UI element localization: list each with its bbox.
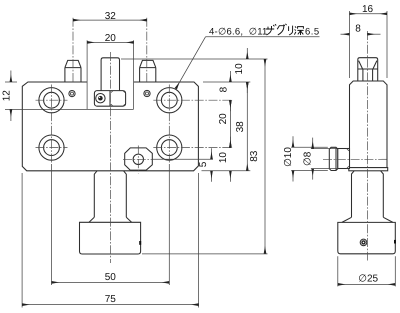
dim 20 line xyxy=(87,41,134,43)
svg-text:38: 38 xyxy=(235,121,246,133)
dim 8 top arrows xyxy=(341,33,350,35)
clamp nut body xyxy=(94,91,125,107)
svg-text:∅11: ∅11 xyxy=(249,27,268,38)
leader line with arrow xyxy=(176,37,206,89)
side top knob step line xyxy=(358,68,378,70)
side clamp knob head xyxy=(329,147,338,170)
hex bolt circle xyxy=(133,154,143,164)
carriage plate right edge xyxy=(133,40,135,109)
hole crosshair row1 left xyxy=(36,99,68,101)
counterbore hole bottom-left inner xyxy=(44,140,60,156)
dim 83 line xyxy=(264,59,266,254)
dia10 arrows xyxy=(292,136,294,147)
svg-text:50: 50 xyxy=(105,272,117,283)
dim 32 extension lines xyxy=(73,18,147,82)
side view mid cylinder xyxy=(352,171,384,218)
svg-text:6.5: 6.5 xyxy=(305,27,320,38)
svg-text:10: 10 xyxy=(218,152,229,164)
svg-text:8: 8 xyxy=(219,86,230,92)
hole crosshair row2 left xyxy=(36,147,68,149)
svg-text:4-∅6.6,: 4-∅6.6, xyxy=(209,27,243,38)
svg-text:5: 5 xyxy=(198,161,209,167)
dim 10 bottom arrows xyxy=(229,137,231,148)
note kanji FUKA (deep) xyxy=(294,27,303,36)
dim 32 line xyxy=(73,19,147,21)
counterbore hole top-right outer xyxy=(157,88,182,113)
ext line body bottom right xyxy=(202,170,251,172)
counterbore hole top-left inner xyxy=(44,92,60,108)
carriage plate left edge xyxy=(86,40,88,109)
side set screw edge mark xyxy=(394,240,396,244)
hex bolt crosshair horizontal extends to 5-dim xyxy=(123,158,152,160)
note kana ZA xyxy=(266,24,304,35)
svg-text:83: 83 xyxy=(249,150,260,162)
hole crosshair row2 right extends to dims xyxy=(153,147,233,149)
svg-text:16: 16 xyxy=(362,4,374,15)
clamp nut hex corner chamfers xyxy=(111,91,125,106)
pin hole left xyxy=(69,91,75,97)
side view upper block xyxy=(350,81,388,168)
dia8 extension lines xyxy=(311,149,337,169)
left top knob xyxy=(65,60,81,82)
ext line top edge right xyxy=(203,81,250,83)
dim 8 arrows (col A) xyxy=(229,71,231,82)
front body step edge line xyxy=(5,108,133,110)
dim 50 line xyxy=(52,281,170,283)
center post xyxy=(101,58,119,91)
counterbore hole top-right inner xyxy=(161,92,177,108)
side view top knob xyxy=(358,58,378,81)
side clamp neck chamfers xyxy=(347,149,349,169)
svg-text:8: 8 xyxy=(355,24,361,35)
dia10 extension lines xyxy=(291,147,328,170)
svg-text:∅25: ∅25 xyxy=(358,274,378,285)
counterbore hole bottom-left outer xyxy=(39,135,64,160)
side view vertical centerline xyxy=(366,31,368,261)
hole centerline right column xyxy=(168,85,170,165)
clamp nut divider xyxy=(109,91,111,107)
dia25 extension lines xyxy=(338,256,396,286)
counterbore hole bottom-right inner xyxy=(161,140,177,156)
side view base plate xyxy=(349,168,388,171)
dim 16 extension lines xyxy=(350,11,388,78)
svg-text:10: 10 xyxy=(234,63,245,75)
ext line post top right xyxy=(121,58,268,60)
counterbore hole bottom-right outer xyxy=(157,135,182,160)
side clamp knob axis centerline xyxy=(323,158,387,160)
front view body outline xyxy=(22,82,198,171)
leader note underline xyxy=(206,36,320,38)
dim 12 arrows xyxy=(10,71,12,83)
hole centerline left column xyxy=(51,85,53,165)
pin hole right xyxy=(144,90,150,96)
note kana GU xyxy=(277,24,286,35)
side view bottom cylinder xyxy=(338,222,396,253)
side set screw circle xyxy=(360,239,367,246)
shaft flare xyxy=(89,217,132,222)
side view flare xyxy=(342,217,393,222)
hex bolt crosshair vertical xyxy=(137,146,139,174)
dim 10 top arrows (col B) xyxy=(246,48,248,59)
counterbore hole top-left outer xyxy=(39,88,64,113)
dim 75 extension lines xyxy=(22,173,199,308)
svg-text:32: 32 xyxy=(105,11,117,22)
bottom cylinder front xyxy=(80,222,141,254)
clamp screw center dot xyxy=(98,96,103,101)
svg-text:20: 20 xyxy=(105,33,117,44)
side top knob taper lines xyxy=(359,61,377,81)
svg-text:12: 12 xyxy=(1,90,12,102)
dim 16 line xyxy=(350,13,388,15)
dim 12 extension tick xyxy=(5,81,17,83)
dim 5 arrows xyxy=(211,148,213,159)
set screw mark on cylinder edge xyxy=(139,241,141,245)
note kana RI xyxy=(289,26,293,35)
front view vertical centerline xyxy=(109,52,111,263)
hex bolt on face xyxy=(125,148,153,170)
dim 20 vertical line xyxy=(229,100,231,147)
side clamp knob head line xyxy=(335,148,337,170)
hole crosshair row1 right extends to dims xyxy=(153,99,233,101)
dim 38 line xyxy=(246,82,248,171)
right top knob xyxy=(140,60,156,82)
clamp screw circle xyxy=(96,94,105,103)
dia25 line xyxy=(338,283,396,285)
svg-text:20: 20 xyxy=(218,113,229,125)
side clamp knob neck xyxy=(338,149,350,169)
ext line cylinder bottom xyxy=(142,253,268,255)
dia8 arrows xyxy=(312,138,314,149)
svg-text:75: 75 xyxy=(105,294,117,305)
svg-text:∅8: ∅8 xyxy=(302,151,313,166)
shaft below body xyxy=(94,171,126,218)
svg-text:∅10: ∅10 xyxy=(283,147,294,167)
dim 75 line xyxy=(22,304,199,306)
